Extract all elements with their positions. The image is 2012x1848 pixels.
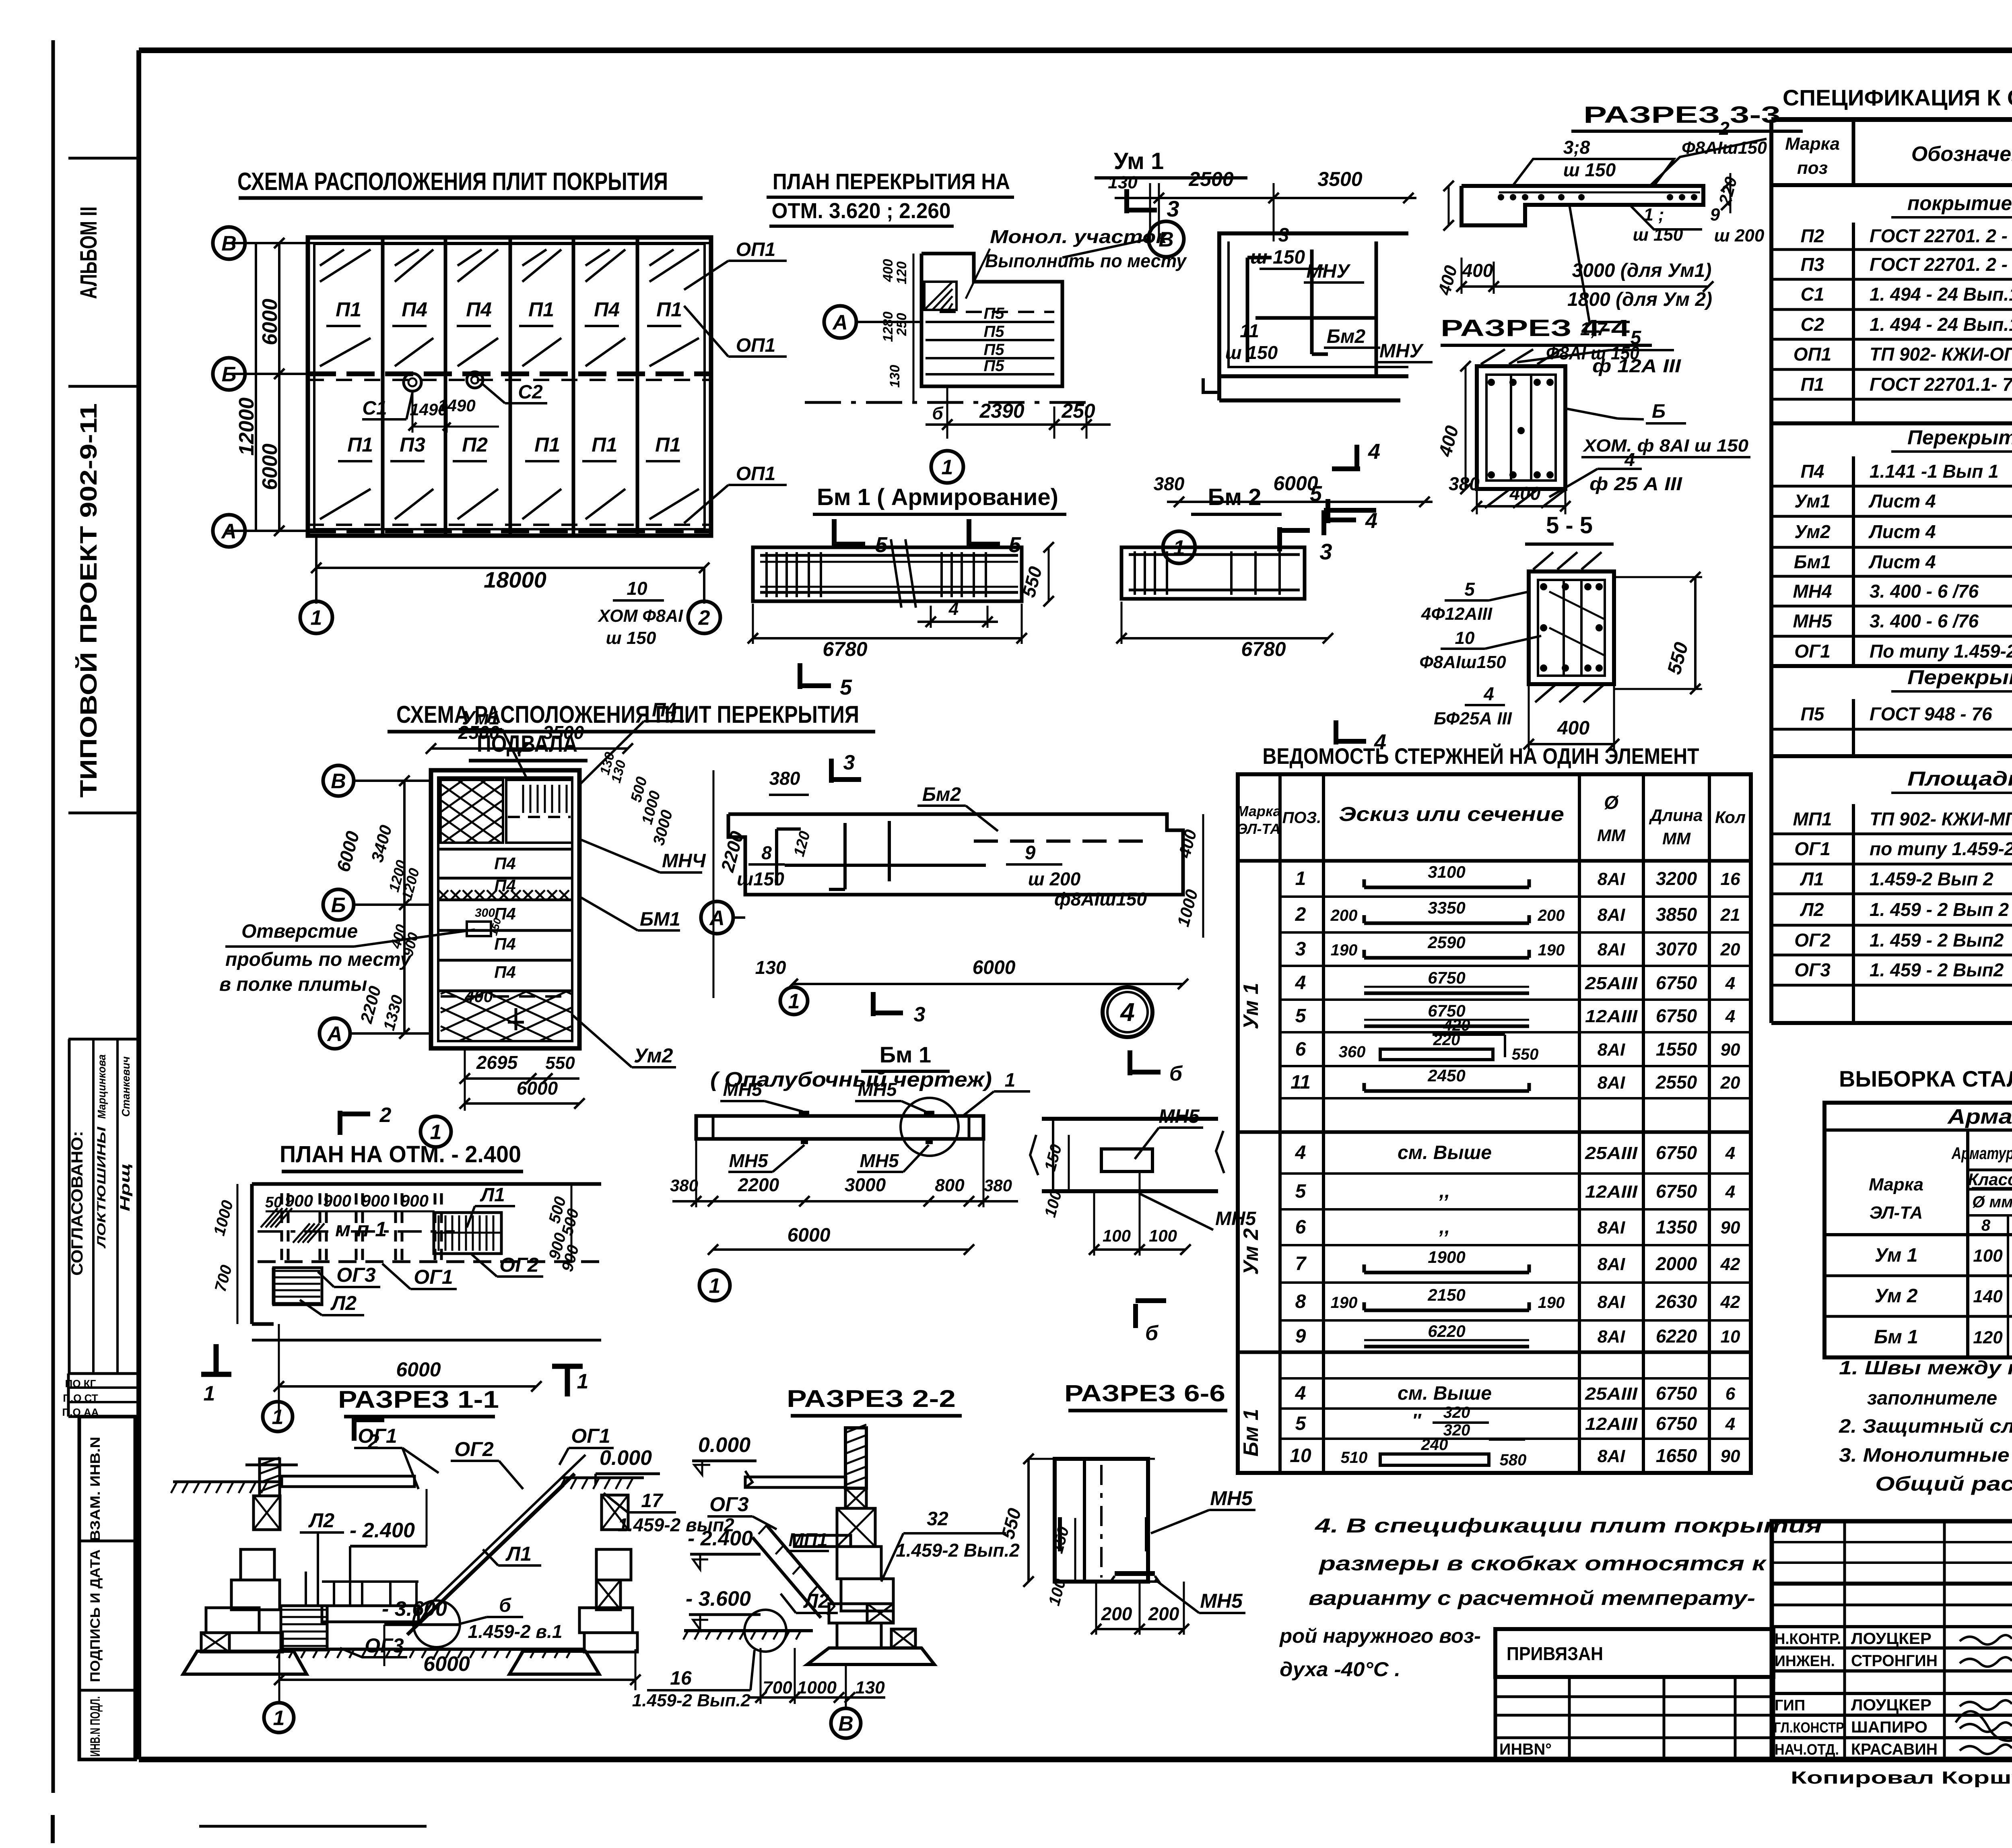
svg-text:16: 16 [1721,869,1740,889]
svg-text:П4: П4 [494,934,516,953]
svg-text:ИНВ.N ПОДЛ.: ИНВ.N ПОДЛ. [88,1696,103,1757]
hatched wall left [260,1459,280,1496]
thin hatch band [439,890,448,900]
svg-text:360: 360 [1339,1043,1366,1061]
svg-text:ПРИВЯЗАН: ПРИВЯЗАН [1507,1643,1603,1664]
svg-text:25АIII: 25АIII [1585,1143,1638,1163]
svg-text:ш 150: ш 150 [606,628,656,648]
svg-text:8: 8 [1981,1217,1991,1234]
dim 6780 [753,637,1022,639]
MN5 side plates [1145,1517,1150,1551]
svg-text:2: 2 [1295,904,1306,925]
svg-text:Марка: Марка [1785,134,1840,154]
svg-text:3;8: 3;8 [1563,137,1590,158]
svg-text:6000: 6000 [517,1078,558,1099]
svg-text:Площадка на отм. - 2.40: Площадка на отм. - 2.40 [1907,767,2012,790]
dashed line bottom [441,995,569,998]
MN5 box inside [1101,1149,1152,1171]
svg-text:6750: 6750 [1656,972,1697,993]
svg-text:8АI: 8АI [1598,940,1625,959]
svg-text:4: 4 [1725,974,1735,993]
svg-text:ММ: ММ [1662,829,1691,848]
stirrups left group [765,552,768,597]
svg-text:П5: П5 [983,357,1004,375]
svg-text:2: 2 [1719,118,1730,139]
svg-text:200: 200 [1330,907,1358,924]
svg-text:140: 140 [1973,1287,2003,1306]
svg-text:Л2: Л2 [803,1590,829,1612]
svg-text:700: 700 [763,1678,792,1697]
left block rebars dots [1498,194,1504,200]
svg-text:4. В спецификации плит покрыти: 4. В спецификации плит покрытия [1315,1514,1822,1537]
svg-text:ш 150: ш 150 [1563,159,1616,180]
left tower blocks [254,1496,280,1530]
soglasovano table [68,1038,139,1041]
svg-text:400: 400 [1462,260,1493,281]
svg-text:1: 1 [430,1121,442,1144]
svg-text:250: 250 [1061,400,1095,422]
svg-text:ОГ3: ОГ3 [365,1634,404,1657]
svg-text:ОГ1: ОГ1 [571,1425,610,1447]
svg-text:2000: 2000 [1655,1253,1697,1274]
svg-text:12АIII: 12АIII [1585,1414,1638,1434]
section mark 2 top [338,1111,342,1135]
svg-text:ВЫБОРКА СТАЛИ НА ОДИН ЭЛЕ: ВЫБОРКА СТАЛИ НА ОДИН ЭЛЕМЕНТ, КГ [1839,1066,2012,1091]
svg-text:Арматурная сталь ГОСТ: Арматурная сталь ГОСТ [1951,1144,2012,1163]
svg-text:П5: П5 [983,323,1004,340]
big detail circle 4 [1103,987,1152,1037]
svg-text:900: 900 [361,1191,390,1210]
svg-text:3000: 3000 [845,1174,886,1195]
svg-text:см. Выше: см. Выше [1398,1142,1492,1163]
svg-text:8АI: 8АI [1598,1218,1625,1237]
svg-text:ГОСТ 22701.1- 77: ГОСТ 22701.1- 77 [1870,374,2012,395]
svg-text:100: 100 [1973,1246,2003,1266]
svg-text:1: 1 [1005,1070,1016,1091]
svg-text:1: 1 [204,1382,215,1405]
svg-text:2550: 2550 [1655,1072,1697,1093]
title block outer [1772,1521,2012,1759]
svg-text:200: 200 [1148,1603,1179,1624]
svg-text:А: А [709,907,725,930]
svg-text:4Ф12АIII: 4Ф12АIII [1421,604,1493,624]
svg-text:ТП 902- КЖИ-МП1-С6: ТП 902- КЖИ-МП1-С6 [1870,808,2012,829]
svg-text:МНУ: МНУ [1379,340,1424,362]
section mark 5 bottom [798,663,802,689]
svg-text:190: 190 [1538,1294,1565,1312]
dims 150 100 [1074,1518,1076,1582]
svg-text:Ф8АIш150: Ф8АIш150 [1682,138,1767,158]
svg-text:8АI: 8АI [1598,869,1625,889]
svg-text:ПОЗ.: ПОЗ. [1282,809,1321,827]
svg-text:6750: 6750 [1656,1142,1697,1163]
svg-text:Ум 2: Ум 2 [1875,1285,1918,1307]
svg-text:по типу 1.459-2 Вып 2: по типу 1.459-2 Вып 2 [1870,838,2012,859]
svg-text:Копировал Коршунова: Копировал Коршунова [1791,1768,2012,1788]
small cells top left of block [1772,1541,2012,1543]
right dim 220 [1730,173,1732,213]
razrez 1-1 T marks [201,1372,231,1377]
right tower [602,1495,628,1530]
svg-text:4: 4 [1119,998,1135,1027]
header row [1771,183,2012,187]
svg-text:П1: П1 [347,433,373,456]
svg-text:8АI: 8АI [1598,1446,1625,1466]
lower flight steps [281,1606,327,1650]
svg-text:Ум 1: Ум 1 [1114,148,1164,174]
svg-text:5: 5 [1295,1413,1307,1434]
svg-text:ВЕДОМОСТЬ СТЕРЖНЕЙ НА ОДИН Э: ВЕДОМОСТЬ СТЕРЖНЕЙ НА ОДИН ЭЛЕМЕНТ [1263,743,1699,769]
svg-text:1: 1 [311,606,322,630]
um1 bottom dims [1167,501,1433,503]
monolith hatch square [924,282,957,310]
svg-text:Станкевич: Станкевич [120,1056,132,1117]
svg-text:380: 380 [670,1176,698,1195]
left dim 550 [1027,1459,1030,1582]
svg-text:Ум1: Ум1 [1794,491,1831,512]
svg-text:ш 200: ш 200 [1028,868,1081,889]
svg-text:Перекрытие на отм. 3.62 ; 2: Перекрытие на отм. 3.62 ; 2.26 [1907,666,2012,689]
tp 902-9-11 row [1772,1582,2012,1586]
svg-text:1.459-2 Вып.2: 1.459-2 Вып.2 [632,1691,751,1710]
svg-text:ф8АIш150: ф8АIш150 [1054,889,1147,910]
section mark 6 bottom [1133,1304,1138,1328]
svg-text:5: 5 [1295,1005,1307,1027]
svg-text:П3: П3 [400,433,425,456]
svg-text:духа -40°С .: духа -40°С . [1280,1658,1400,1681]
stair slab diagonal [767,1525,835,1606]
axis A dashdot [805,401,1086,404]
svg-text:10: 10 [1455,628,1475,648]
ground line right [561,1477,644,1479]
svg-text:2. Защитный слой бетона в моно: 2. Защитный слой бетона в монолитных уча… [1839,1416,2012,1437]
svg-text:СОГЛАСОВАНО:: СОГЛАСОВАНО: [68,1131,86,1276]
svg-text:МН5: МН5 [858,1079,897,1100]
svg-text:1: 1 [1295,868,1306,889]
svg-text:1 ;: 1 ; [1643,205,1664,225]
break marks [891,539,901,608]
svg-text:11: 11 [1240,320,1259,341]
svg-text:ГОСТ 22701. 2 - 77: ГОСТ 22701. 2 - 77 [1870,254,2012,275]
svg-text:П4: П4 [494,854,516,873]
svg-text:3: 3 [1278,225,1289,246]
parallelogram callouts above [1513,159,1674,186]
svg-text:6780: 6780 [823,638,867,660]
svg-text:1. 494 - 24 Вып.1: 1. 494 - 24 Вып.1 [1870,314,2012,335]
svg-text:10: 10 [1721,1327,1740,1347]
svg-text:МП1: МП1 [789,1529,828,1550]
axis circle 1 detail [931,451,963,483]
svg-text:ш 150: ш 150 [1250,247,1305,268]
svg-text:5: 5 [1295,1181,1307,1202]
svg-text:8АI: 8АI [1598,1040,1625,1060]
svg-text:поз: поз [1797,158,1828,178]
svg-text:900: 900 [285,1191,313,1210]
svg-text:По типу 1.459-2 Вып 2: По типу 1.459-2 Вып 2 [1870,641,2012,662]
svg-text:400: 400 [1557,718,1589,739]
svg-text:8: 8 [1295,1291,1306,1312]
svg-text:4: 4 [948,599,959,619]
plan pokrytiya outline [308,237,711,536]
axis circle 1 [300,601,332,633]
svg-text:Л1: Л1 [1800,868,1824,889]
section square 4-4 [1477,366,1565,489]
svg-text:заполнителе: заполнителе [1867,1388,1997,1409]
svg-text:3: 3 [1167,196,1179,221]
svg-text:9: 9 [1025,842,1036,864]
svg-text:6220: 6220 [1656,1326,1697,1347]
svg-text:6780: 6780 [1241,638,1286,660]
svg-text:Ум2: Ум2 [634,1044,673,1067]
MN5 plates top [799,1111,809,1116]
svg-text:4: 4 [1368,439,1380,464]
svg-text:1.459-2 в.1: 1.459-2 в.1 [468,1621,563,1642]
svg-text:1. 494 - 24 Вып.1: 1. 494 - 24 Вып.1 [1870,284,2012,305]
svg-text:11: 11 [1290,1072,1311,1093]
svg-text:Л2: Л2 [1800,899,1824,920]
svg-text:Общий расход бетона 6,5 м³: Общий расход бетона 6,5 м³ [1875,1473,2012,1495]
svg-text:1800 (для Ум 2): 1800 (для Ум 2) [1567,289,1712,310]
stropovka C2 [467,372,483,388]
section mark 3 bottom [1277,527,1282,551]
svg-text:ОП1: ОП1 [1793,344,1831,365]
svg-text:4: 4 [1725,1007,1735,1026]
svg-text:П4: П4 [402,298,427,321]
svg-text:С2: С2 [518,382,543,403]
bm2 stirrups [1134,551,1136,595]
svg-text:190: 190 [1538,941,1565,959]
left margin column lines [68,157,139,160]
svg-text:ОП1: ОП1 [736,463,776,485]
svg-text:1.459-2 Вып 2: 1.459-2 Вып 2 [1870,868,1993,889]
uzel left dims [1068,1135,1070,1191]
svg-text:ШАПИРО: ШАПИРО [1851,1718,1927,1736]
svg-text:320: 320 [1443,1421,1470,1439]
axis circle V [213,227,245,259]
axis circle 2 [688,601,720,633]
svg-text:190: 190 [1331,941,1358,959]
svg-text:МН5: МН5 [1200,1590,1243,1612]
svg-text:С1: С1 [362,398,387,419]
svg-text:Бм 1: Бм 1 [1239,1409,1263,1457]
section mark 4 bottom left [1334,720,1338,745]
svg-text:32: 32 [927,1508,948,1530]
svg-text:- 3.600: - 3.600 [686,1587,751,1611]
svg-text:П1: П1 [336,298,361,321]
svg-text:130: 130 [887,365,903,388]
beam body Bm2 [1121,547,1305,599]
ground line 2-2 [684,1629,813,1632]
MN5 bottom plate [1115,1571,1155,1576]
svg-text:П1: П1 [534,433,560,456]
svg-text:НАЧ.ОТД.: НАЧ.ОТД. [1775,1741,1839,1758]
svg-text:90: 90 [1721,1040,1740,1060]
svg-text:2390: 2390 [979,400,1024,422]
svg-text:ГОСТ 22701. 2 - 77: ГОСТ 22701. 2 - 77 [1870,225,2012,246]
svg-text:Л1: Л1 [480,1184,505,1206]
svg-text:9: 9 [1295,1326,1306,1347]
vyborka outer [1824,1103,2012,1357]
callout 6 hom [1565,408,1618,419]
po kg rows [67,1374,70,1417]
svg-text:МН5: МН5 [1793,610,1833,631]
left rotated dims [237,1184,239,1324]
P5 plate rows [926,321,1054,323]
svg-text:П5: П5 [1801,703,1825,724]
svg-text:Л2: Л2 [330,1292,357,1314]
callout 5 f12AIII [1517,350,1610,362]
stair block [434,1213,501,1254]
svg-text:Марка: Марка [1869,1175,1923,1194]
svg-text:3: 3 [843,751,855,774]
svg-text:П1: П1 [592,433,617,456]
top band hatch [320,250,371,282]
bottom dims [946,386,948,439]
dim 4 middle [930,606,932,628]
svg-text:РАЗРЕЗ 2-2: РАЗРЕЗ 2-2 [787,1385,956,1412]
privyazan box [1495,1629,1773,1677]
axis circle 1 um1 [1163,531,1195,563]
plate column lines [381,237,385,536]
svg-text:42: 42 [1720,1254,1740,1274]
svg-text:Н.КОНТР.: Н.КОНТР. [1775,1631,1841,1648]
axis circle V [1148,221,1184,257]
svg-text:400: 400 [1509,483,1541,504]
svg-text:П4: П4 [652,699,676,721]
svg-text:ОТМ. 3.620 ; 2.260: ОТМ. 3.620 ; 2.260 [772,199,951,223]
svg-text:В: В [331,770,346,793]
svg-text:СПЕЦИФИКАЦИЯ К СХЕМАМ ПЛИТ: СПЕЦИФИКАЦИЯ К СХЕМАМ ПЛИТ ПОКРЫТИЯ И ПЕ… [1783,85,2012,110]
svg-text:2695: 2695 [476,1052,518,1073]
svg-text:ЛОКТЮШИНЫ: ЛОКТЮШИНЫ [95,1126,108,1249]
svg-text:5 - 5: 5 - 5 [1546,512,1593,538]
svg-text:Лист 4: Лист 4 [1868,551,1936,572]
svg-text:6: 6 [1295,1039,1306,1060]
um1 outline (L shape wall) [1219,233,1408,376]
left dim 400 rot [1448,186,1450,225]
svg-text:5: 5 [1464,579,1475,600]
svg-text:ПОДПИСЬ И ДАТА: ПОДПИСЬ И ДАТА [88,1549,103,1682]
svg-text:3. 400 - 6 /76: 3. 400 - 6 /76 [1870,581,1979,602]
svg-text:ш150: ш150 [737,868,784,889]
svg-text:ИНВN°: ИНВN° [1499,1741,1552,1758]
svg-text:2590: 2590 [1427,933,1465,952]
svg-text:7: 7 [1295,1253,1307,1275]
svg-text:6000: 6000 [258,299,282,345]
svg-text:3: 3 [1295,938,1306,960]
svg-text:ОГ2: ОГ2 [499,1254,539,1276]
svg-text:4: 4 [1295,1142,1306,1163]
section mark 3 um2 [829,759,834,783]
svg-text:МН5: МН5 [1210,1487,1253,1510]
svg-text:РАЗРЕЗ 1-1: РАЗРЕЗ 1-1 [338,1386,499,1413]
svg-text:190: 190 [1331,1294,1358,1312]
svg-text:380: 380 [984,1176,1012,1195]
svg-text:2500: 2500 [1188,168,1233,190]
svg-text:Перекрытие подвала: Перекрытие подвала [1907,426,2012,449]
svg-text:П2: П2 [1801,225,1824,246]
svg-text:6750: 6750 [1656,1005,1697,1026]
klass row [1968,1169,2012,1171]
svg-text:Б: Б [222,363,237,386]
callout 2 [1650,139,1767,186]
svg-text:Обозначение: Обозначение [1911,142,2012,166]
svg-text:Бм1: Бм1 [1794,551,1831,572]
svg-text:8АI: 8АI [1598,905,1625,925]
svg-text:П1: П1 [1801,374,1824,395]
svg-text:в полке плиты: в полке плиты [219,974,367,995]
bottom 4 f25AIII [1549,469,1598,497]
svg-text:6: 6 [1725,1384,1736,1404]
svg-text:3200: 3200 [1656,868,1697,889]
svg-text:МНЧ: МНЧ [662,850,706,872]
svg-text:1490: 1490 [438,396,475,415]
vertical dim line 6000/6000 [278,243,280,531]
svg-text:10: 10 [1290,1445,1311,1466]
axis circle B [213,358,245,390]
dim 400 bottom [1477,505,1565,507]
svg-text:3500: 3500 [543,722,584,743]
svg-text:6750: 6750 [1656,1181,1697,1202]
svg-text:А: А [326,1023,342,1046]
svg-text:1. 459 - 2 Вып 2: 1. 459 - 2 Вып 2 [1870,899,2009,920]
svg-text:Арматурные изделия: Арматурные изделия [1947,1105,2012,1128]
svg-text:ТИПОВОЙ ПРОЕКТ 902-9-11: ТИПОВОЙ ПРОЕКТ 902-9-11 [76,403,102,798]
svg-text:17: 17 [641,1490,664,1512]
svg-text:120: 120 [894,262,909,285]
axis circles podval [323,765,354,796]
svg-text:50: 50 [265,1194,282,1211]
svg-text:Бм2: Бм2 [1327,326,1365,347]
svg-text:6000: 6000 [423,1652,470,1676]
hatch above and below [1481,349,1505,364]
vedomost frame [1238,774,1751,1473]
svg-text:ОГ1: ОГ1 [414,1266,453,1288]
section marks 5 top [832,519,837,547]
svg-text:200: 200 [1101,1603,1132,1624]
svg-text:″: ″ [1412,1410,1422,1431]
svg-text:Ø мм: Ø мм [1972,1193,2012,1211]
svg-text:5: 5 [840,675,852,699]
left dim chain [403,781,406,1033]
section mark 6 top [1128,1050,1132,1075]
sheet frame [139,47,2012,53]
svg-text:Эскиз или сечение: Эскиз или сечение [1339,803,1564,825]
svg-text:1: 1 [942,456,953,479]
svg-text:КРАСАВИН: КРАСАВИН [1851,1741,1938,1758]
svg-text:1. 459 - 2 Вып2: 1. 459 - 2 Вып2 [1870,959,2004,980]
stropovka C1 [404,373,421,391]
svg-text:МН5: МН5 [860,1150,899,1171]
dim 18000 [316,567,704,569]
svg-text:МНУ: МНУ [1306,261,1351,282]
svg-text:Кол: Кол [1715,808,1746,827]
svg-text:6220: 6220 [1428,1322,1465,1341]
svg-text:1350: 1350 [1656,1217,1697,1237]
svg-text:П4: П4 [1801,461,1824,482]
svg-text:Лист 4: Лист 4 [1868,491,1936,512]
svg-text:С2: С2 [1801,314,1824,335]
svg-text:6000: 6000 [973,957,1016,978]
svg-text:400: 400 [880,259,896,283]
svg-text:ГИП: ГИП [1775,1697,1805,1714]
svg-text:АЛЬБОМ II: АЛЬБОМ II [76,206,102,299]
svg-text:ОГ1: ОГ1 [1794,641,1831,662]
bottom dims 200 200 [1096,1628,1184,1630]
svg-text:Отверстие: Отверстие [241,921,358,942]
svg-text:320: 320 [1443,1404,1470,1421]
svg-text:380: 380 [769,768,800,789]
